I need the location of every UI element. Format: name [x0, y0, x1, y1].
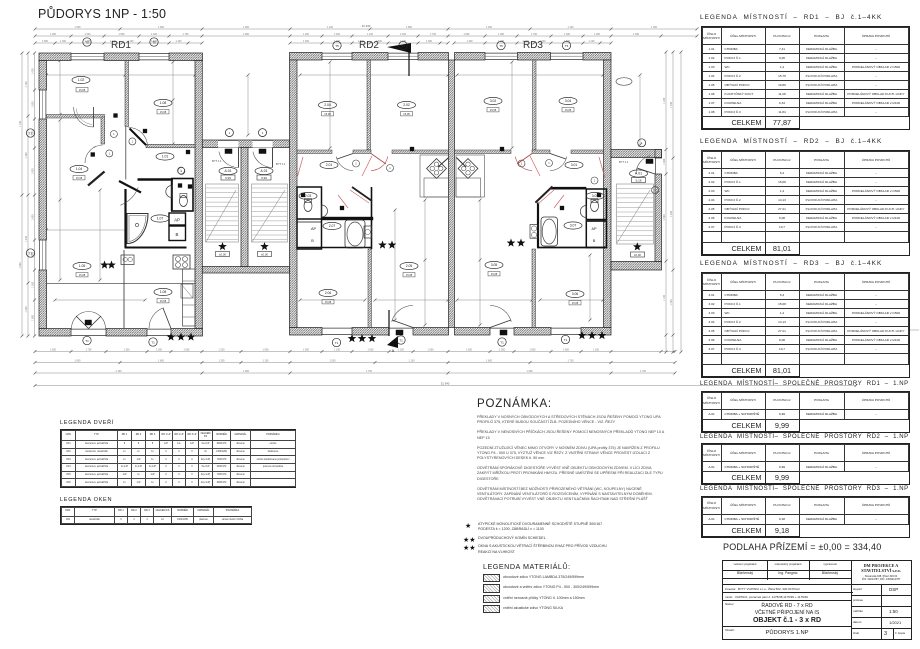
- svg-text:3.07: 3.07: [570, 224, 577, 228]
- svg-text:1 300: 1 300: [303, 40, 310, 43]
- svg-text:1 900: 1 900: [243, 33, 250, 36]
- svg-text:T1: T1: [564, 338, 568, 342]
- RD2 interior walls: [367, 60, 371, 150]
- door to 1.08: [129, 128, 148, 147]
- RD1 corner shower: [127, 214, 148, 244]
- legend table RD2: [700, 138, 882, 145]
- bathtub RD3: [541, 217, 558, 246]
- room labels RD1: [72, 76, 90, 83]
- stair connector B walls: [611, 150, 662, 158]
- svg-text:15,08: 15,08: [76, 176, 83, 180]
- svg-text:1: 1: [132, 140, 134, 144]
- blank ellipse right of RD3: [616, 78, 632, 86]
- svg-text:1 400: 1 400: [467, 40, 474, 43]
- svg-text:31 340: 31 340: [362, 24, 371, 28]
- svg-text:1 300: 1 300: [498, 33, 505, 36]
- left dimension lines: [21, 53, 23, 336]
- RD1 outer walls: [39, 53, 71, 61]
- svg-text:1 400: 1 400: [670, 299, 673, 306]
- svg-text:1 300: 1 300: [651, 26, 658, 29]
- RD3 doors + red: [515, 157, 532, 171]
- legend doors: [60, 420, 114, 426]
- RD2 kitchen: [420, 155, 449, 197]
- svg-text:1 900: 1 900: [31, 168, 34, 175]
- svg-text:T5: T5: [152, 40, 156, 44]
- svg-text:2.01: 2.01: [326, 163, 333, 167]
- svg-text:1 900: 1 900: [243, 26, 250, 29]
- top dimension lines: [35, 28, 697, 30]
- svg-text:1 700: 1 700: [430, 33, 437, 36]
- svg-text:1 100: 1 100: [116, 370, 123, 373]
- svg-text:1 400: 1 400: [486, 26, 493, 29]
- tiny area boxes below room labels: [76, 88, 88, 92]
- svg-text:15,08: 15,08: [406, 273, 413, 277]
- RD3 bath/wc cluster: [586, 189, 606, 220]
- svg-text:RD1: RD1: [111, 40, 131, 51]
- svg-text:RD3: RD3: [523, 40, 543, 51]
- connector B stairs: [617, 188, 653, 190]
- svg-text:±0,00: ±0,00: [634, 253, 641, 257]
- RD2 outer walls: [290, 53, 323, 61]
- svg-text:T1: T1: [151, 340, 155, 344]
- svg-text:1 200: 1 200: [219, 349, 226, 352]
- svg-text:1: 1: [355, 162, 357, 166]
- svg-text:B: B: [593, 239, 596, 243]
- svg-text:1 600: 1 600: [263, 349, 270, 352]
- exterior walls: [39, 53, 662, 337]
- RD1 washbasin: [166, 186, 172, 198]
- legend table RD3: [700, 260, 882, 267]
- svg-text:1 800: 1 800: [31, 314, 34, 321]
- RD3 kitchen: [456, 155, 485, 197]
- svg-text:1 500: 1 500: [428, 349, 435, 352]
- RD2 bath/wc cluster: [297, 187, 322, 249]
- svg-text:1 600: 1 600: [527, 370, 534, 373]
- svg-text:T1: T1: [335, 341, 339, 345]
- washer RD2: [364, 226, 372, 238]
- svg-text:1 100: 1 100: [263, 360, 270, 363]
- svg-text:1 800: 1 800: [19, 262, 22, 269]
- dimension lines: [19, 24, 919, 387]
- svg-text:2.06: 2.06: [325, 291, 332, 295]
- RD1 AP/B closets: [169, 213, 186, 225]
- svg-text:1 600: 1 600: [158, 26, 165, 29]
- RD1 corridor wall: [138, 178, 174, 181]
- svg-text:1 800: 1 800: [530, 349, 537, 352]
- RD3 outer walls: [455, 53, 486, 61]
- svg-text:1 200: 1 200: [398, 349, 405, 352]
- stairwell labels: [219, 167, 237, 174]
- svg-text:1 500: 1 500: [184, 349, 191, 352]
- svg-text:1 800: 1 800: [119, 33, 126, 36]
- svg-text:A.01: A.01: [261, 169, 268, 173]
- svg-text:1 500: 1 500: [303, 349, 310, 352]
- door in 1.04 wall: [85, 145, 102, 163]
- connector B entry door: [636, 155, 651, 174]
- RD1 kitchen counter along right wall: [183, 269, 196, 326]
- RD1 interior walls: [125, 61, 129, 127]
- svg-text:1 200: 1 200: [303, 33, 310, 36]
- svg-text:1 100: 1 100: [589, 40, 596, 43]
- svg-text:1 200: 1 200: [50, 33, 57, 36]
- svg-text:1 300: 1 300: [124, 349, 131, 352]
- room labels RD2: [319, 101, 337, 108]
- RD1 kitchen: [121, 255, 134, 265]
- svg-text:1.01: 1.01: [162, 155, 169, 159]
- svg-text:1 100: 1 100: [409, 360, 416, 363]
- svg-text:1 100: 1 100: [25, 81, 28, 88]
- svg-text:2.02: 2.02: [403, 103, 410, 107]
- svg-text:1: 1: [641, 141, 643, 145]
- connector A entry doors: [219, 152, 239, 168]
- svg-text:1 400: 1 400: [25, 235, 28, 242]
- svg-text:1 100: 1 100: [19, 120, 22, 127]
- svg-text:15,08: 15,08: [324, 112, 331, 116]
- svg-text:1 400: 1 400: [31, 68, 34, 75]
- svg-text:1: 1: [594, 179, 596, 183]
- svg-text:1: 1: [521, 162, 523, 166]
- svg-text:1 100: 1 100: [568, 26, 575, 29]
- svg-text:BYT č.1: BYT č.1: [619, 160, 629, 164]
- legend table common RD3: [700, 486, 909, 492]
- RD1 bath room koupelna: [124, 189, 126, 248]
- red accents: [297, 157, 303, 178]
- svg-text:9,99: 9,99: [261, 176, 267, 180]
- svg-text:1 700: 1 700: [640, 370, 647, 373]
- svg-text:1 300: 1 300: [60, 40, 67, 43]
- svg-text:3.06: 3.06: [572, 292, 579, 296]
- star notes: [463, 522, 663, 555]
- svg-text:1 300: 1 300: [219, 360, 226, 363]
- svg-text:15,08: 15,08: [79, 88, 86, 92]
- RD3 interior walls: [533, 60, 537, 150]
- svg-text:1 700: 1 700: [183, 33, 190, 36]
- svg-text:A.01: A.01: [635, 172, 642, 176]
- section flag top: [387, 43, 411, 53]
- legend table common RD1: [700, 381, 909, 387]
- svg-text:1 500: 1 500: [330, 360, 337, 363]
- svg-text:2.04: 2.04: [324, 103, 331, 107]
- svg-text:AP: AP: [311, 227, 317, 231]
- RD1 wc room: [172, 179, 193, 212]
- room labels RD3: [484, 97, 502, 104]
- svg-text:1 400: 1 400: [176, 40, 183, 43]
- svg-text:9,18: 9,18: [636, 179, 642, 183]
- labels and symbols: [26, 38, 658, 353]
- interior dim chains (texture): [47, 74, 196, 76]
- svg-text:1: 1: [262, 131, 264, 135]
- svg-text:1 600: 1 600: [663, 158, 666, 165]
- svg-text:T5: T5: [565, 44, 569, 48]
- svg-text:1 800: 1 800: [42, 40, 49, 43]
- svg-text:1 500: 1 500: [464, 33, 471, 36]
- svg-text:31 340: 31 340: [441, 382, 450, 386]
- interior texture chains: [172, 62, 174, 144]
- svg-text:1 700: 1 700: [531, 33, 538, 36]
- svg-text:1: 1: [113, 132, 115, 136]
- svg-text:1: 1: [389, 166, 391, 170]
- svg-text:1 600: 1 600: [31, 214, 34, 221]
- svg-text:1 500: 1 500: [31, 281, 34, 288]
- RD1 right party wall: [195, 61, 202, 329]
- RD3 right wall: [604, 60, 612, 328]
- RD1 left wall: [39, 61, 47, 91]
- svg-text:15,08: 15,08: [572, 301, 579, 305]
- legenda materialu: [483, 562, 571, 571]
- svg-text:15,08: 15,08: [160, 110, 167, 114]
- svg-text:1 400: 1 400: [334, 33, 341, 36]
- stars: [167, 333, 176, 341]
- svg-text:15,08: 15,08: [491, 272, 498, 276]
- svg-text:RD2: RD2: [359, 40, 379, 51]
- svg-text:1 100: 1 100: [334, 349, 341, 352]
- washer RD3: [530, 225, 538, 239]
- washbasin RD3: [580, 206, 586, 218]
- svg-text:T2: T2: [29, 131, 33, 135]
- svg-text:T5: T5: [499, 44, 503, 48]
- washbasin RD2: [322, 205, 328, 217]
- wc RD2 toilet: [304, 201, 312, 212]
- poznamka heading: [477, 398, 552, 410]
- svg-text:1: 1: [229, 131, 231, 135]
- legend table RD1: [700, 14, 882, 21]
- svg-text:15,08: 15,08: [565, 108, 572, 112]
- svg-text:T1: T1: [399, 338, 403, 342]
- svg-text:3.05: 3.05: [491, 263, 498, 267]
- svg-text:T5: T5: [401, 44, 405, 48]
- svg-text:1 300: 1 300: [156, 349, 163, 352]
- svg-text:A: A: [392, 348, 395, 353]
- svg-text:1 900: 1 900: [243, 370, 250, 373]
- svg-text:9,99: 9,99: [225, 176, 231, 180]
- svg-text:A.01: A.01: [225, 169, 232, 173]
- svg-text:1 500: 1 500: [499, 349, 506, 352]
- svg-text:1 600: 1 600: [466, 349, 473, 352]
- svg-text:B: B: [311, 239, 314, 243]
- floor level note: [723, 542, 881, 552]
- svg-text:1 600: 1 600: [368, 349, 375, 352]
- svg-text:2.07: 2.07: [329, 224, 336, 228]
- RD1 entry door leaf: [119, 181, 141, 193]
- legend windows: [60, 497, 112, 503]
- svg-text:B: B: [176, 232, 179, 237]
- connector A stairs: [206, 187, 238, 189]
- svg-text:1.04: 1.04: [76, 167, 83, 171]
- svg-text:1 200: 1 200: [25, 306, 28, 313]
- svg-text:15,08: 15,08: [160, 299, 167, 303]
- svg-text:1 100: 1 100: [663, 294, 666, 301]
- svg-text:1.05: 1.05: [79, 264, 86, 268]
- right dimension lines: [665, 52, 667, 352]
- svg-text:T5: T5: [85, 40, 89, 44]
- svg-text:1.08: 1.08: [160, 290, 167, 294]
- french door threshold: [85, 320, 92, 325]
- circled markers bottom: [83, 336, 91, 344]
- svg-text:1.07: 1.07: [157, 217, 164, 221]
- svg-text:1 400: 1 400: [400, 33, 407, 36]
- svg-text:3.02: 3.02: [490, 99, 497, 103]
- drawing title: [38, 7, 166, 21]
- RD2 doors + red: [371, 157, 388, 171]
- svg-text:1 300: 1 300: [564, 33, 571, 36]
- svg-text:3.03: 3.03: [592, 194, 599, 198]
- circled position markers top: [83, 38, 91, 46]
- party wall RD2/RD3: [449, 60, 455, 328]
- svg-text:1 500: 1 500: [75, 26, 82, 29]
- title block: [722, 560, 912, 640]
- svg-text:1.02: 1.02: [78, 78, 85, 82]
- svg-text:1.08: 1.08: [160, 101, 167, 105]
- svg-text:1: 1: [109, 152, 111, 156]
- chamfer wall RD3 hall: [535, 187, 552, 203]
- svg-text:3.04: 3.04: [565, 99, 572, 103]
- svg-text:1 700: 1 700: [366, 370, 373, 373]
- svg-text:15,08: 15,08: [79, 273, 86, 277]
- svg-text:±0,00: ±0,00: [219, 253, 226, 257]
- svg-text:1 200: 1 200: [594, 33, 601, 36]
- chamfer wall RD2 hall: [352, 187, 372, 201]
- svg-text:±0,00: ±0,00: [261, 253, 268, 257]
- circled markers left: [26, 129, 34, 137]
- svg-text:1 100: 1 100: [327, 26, 334, 29]
- door number circles inside: [110, 131, 117, 138]
- interior elements: [47, 60, 656, 335]
- svg-text:T2: T2: [29, 251, 33, 255]
- svg-text:AP: AP: [174, 218, 180, 223]
- svg-text:1 200: 1 200: [663, 97, 666, 104]
- svg-text:1 300: 1 300: [593, 349, 600, 352]
- stair connector A walls: [202, 140, 289, 148]
- svg-text:1 600: 1 600: [486, 360, 493, 363]
- circled markers above connector doors: [225, 129, 233, 137]
- svg-text:1 600: 1 600: [85, 33, 92, 36]
- svg-text:1 700: 1 700: [86, 349, 93, 352]
- svg-text:2.03: 2.03: [305, 194, 312, 198]
- svg-text:2.05: 2.05: [406, 264, 413, 268]
- svg-text:1 500: 1 500: [663, 214, 666, 221]
- svg-text:15,08: 15,08: [490, 108, 497, 112]
- svg-text:1 300: 1 300: [25, 152, 28, 159]
- svg-text:1 600: 1 600: [563, 349, 570, 352]
- bottom dimension lines: [35, 351, 675, 353]
- RD1 doors: [74, 107, 94, 127]
- svg-text:1: 1: [548, 161, 550, 165]
- section flag bottom: [387, 336, 398, 348]
- misc black marks: [114, 114, 118, 118]
- wc RD3 toilet: [591, 201, 599, 212]
- RD1 chamfer 1.04: [88, 172, 105, 186]
- svg-text:1 300: 1 300: [633, 33, 640, 36]
- legend table common RD2: [700, 434, 909, 440]
- svg-text:1 700: 1 700: [670, 101, 673, 108]
- svg-text:T1: T1: [500, 340, 504, 344]
- svg-text:1 700: 1 700: [568, 360, 575, 363]
- svg-text:T1: T1: [85, 339, 89, 343]
- svg-text:1 800: 1 800: [75, 360, 82, 363]
- room divider 1.05/1.08: [47, 283, 196, 285]
- svg-text:1 600: 1 600: [50, 349, 57, 352]
- svg-text:BYT č.1: BYT č.1: [276, 162, 286, 166]
- svg-text:1 800: 1 800: [406, 26, 413, 29]
- bathtub RD2: [345, 220, 365, 248]
- svg-text:1 800: 1 800: [158, 360, 165, 363]
- svg-text:3.01: 3.01: [571, 163, 578, 167]
- svg-text:1 900: 1 900: [426, 40, 433, 43]
- RD1 bottom wall: [39, 329, 71, 337]
- svg-text:T5: T5: [335, 44, 339, 48]
- svg-text:1 100: 1 100: [367, 33, 374, 36]
- svg-text:1 200: 1 200: [670, 210, 673, 217]
- svg-text:AP: AP: [591, 227, 597, 231]
- svg-text:15,08: 15,08: [403, 112, 410, 116]
- svg-text:BYT č.1: BYT č.1: [212, 159, 222, 163]
- svg-text:15,08: 15,08: [325, 300, 332, 304]
- svg-text:1 400: 1 400: [151, 33, 158, 36]
- svg-text:1 800: 1 800: [31, 101, 34, 108]
